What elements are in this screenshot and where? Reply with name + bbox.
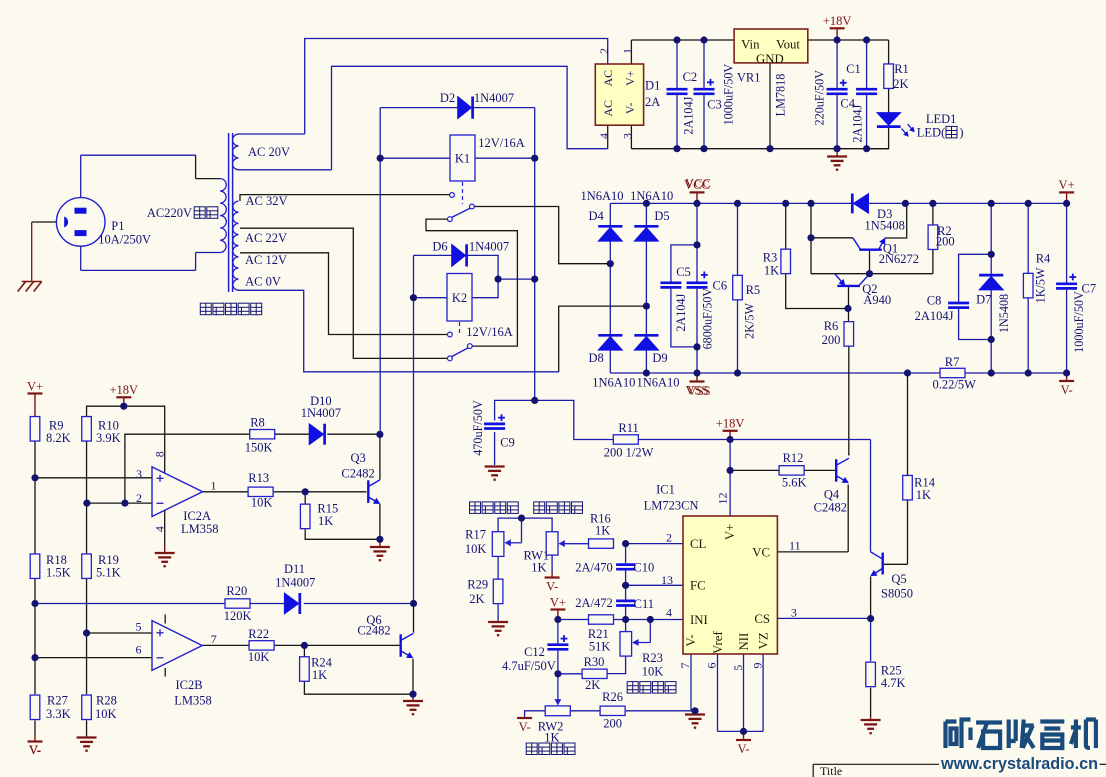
svg-text:12V/16A: 12V/16A (478, 136, 525, 150)
svg-text:LM358: LM358 (174, 694, 212, 708)
svg-text:V+: V+ (1059, 178, 1075, 192)
svg-text:200: 200 (936, 235, 955, 249)
svg-text:12: 12 (716, 493, 730, 505)
svg-text:1K: 1K (595, 523, 610, 537)
svg-text:9: 9 (751, 663, 765, 669)
svg-text:C2482: C2482 (357, 624, 390, 638)
svg-text:1000uF/50V: 1000uF/50V (1072, 291, 1086, 353)
svg-text:C10: C10 (633, 560, 654, 574)
svg-text:NII: NII (737, 633, 751, 651)
svg-text:5: 5 (731, 665, 745, 671)
svg-text:C2482: C2482 (341, 466, 374, 480)
svg-text:R13: R13 (248, 471, 269, 485)
svg-text:2N6272: 2N6272 (879, 252, 919, 266)
svg-text:2A/470: 2A/470 (575, 560, 613, 574)
svg-text:+18V: +18V (716, 417, 745, 431)
svg-text:INI: INI (690, 613, 708, 627)
svg-text:R25: R25 (881, 663, 902, 677)
svg-text:R22: R22 (248, 627, 269, 641)
svg-text:K2: K2 (452, 291, 467, 305)
svg-text:Q5: Q5 (891, 572, 906, 586)
svg-text:2K: 2K (893, 77, 908, 91)
svg-text:4.7K: 4.7K (881, 676, 906, 690)
svg-text:10K: 10K (251, 496, 273, 510)
svg-text:1N6A10: 1N6A10 (630, 189, 673, 203)
svg-text:AC: AC (601, 70, 615, 87)
svg-text:D6: D6 (432, 240, 447, 254)
svg-text:R1: R1 (894, 62, 909, 76)
svg-text:2: 2 (597, 48, 611, 54)
svg-text:): ) (959, 126, 963, 140)
svg-text:Q3: Q3 (350, 451, 365, 465)
svg-text:D5: D5 (654, 209, 669, 223)
svg-text:R23: R23 (642, 651, 663, 665)
svg-text:1K: 1K (916, 488, 931, 502)
svg-text:1K: 1K (764, 263, 779, 277)
svg-text:3.3K: 3.3K (46, 707, 71, 721)
svg-text:1.5K: 1.5K (46, 566, 71, 580)
svg-text:6: 6 (136, 642, 142, 656)
svg-text:C8: C8 (927, 294, 942, 308)
svg-text:V+: V+ (27, 379, 43, 393)
svg-text:AC 12V: AC 12V (245, 253, 287, 267)
svg-text:AC 20V: AC 20V (248, 145, 290, 159)
svg-text:1N4007: 1N4007 (469, 240, 509, 254)
svg-text:C5: C5 (676, 265, 691, 279)
svg-text:4: 4 (666, 606, 672, 620)
svg-text:S8050: S8050 (881, 587, 913, 601)
svg-text:1000uF/50V: 1000uF/50V (722, 64, 736, 126)
svg-text:C11: C11 (634, 597, 654, 611)
svg-text:IC1: IC1 (656, 482, 675, 496)
svg-text:1N4007: 1N4007 (301, 406, 341, 420)
svg-text:LM7818: LM7818 (774, 74, 788, 117)
svg-text:AC: AC (601, 100, 615, 117)
svg-text:V-: V- (546, 579, 558, 593)
svg-text:1N4007: 1N4007 (474, 91, 514, 105)
svg-text:V-: V- (684, 634, 698, 646)
svg-text:VSS: VSS (688, 384, 711, 398)
svg-text:R7: R7 (945, 355, 960, 369)
svg-text:C12: C12 (524, 645, 545, 659)
svg-text:2K/5W: 2K/5W (743, 302, 757, 338)
svg-text:C9: C9 (500, 436, 515, 450)
svg-text:8: 8 (153, 451, 167, 457)
svg-text:AC 32V: AC 32V (245, 194, 287, 208)
svg-text:V-: V- (519, 720, 531, 734)
svg-text:VCC: VCC (685, 177, 711, 191)
svg-text:200 1/2W: 200 1/2W (604, 446, 654, 460)
svg-text:R27: R27 (47, 694, 68, 708)
svg-text:LM358: LM358 (181, 522, 219, 536)
svg-text:10K: 10K (465, 542, 487, 556)
svg-text:R29: R29 (467, 577, 488, 591)
svg-text:2: 2 (136, 491, 142, 505)
svg-text:V+: V+ (723, 524, 737, 540)
svg-text:1N5408: 1N5408 (865, 218, 905, 232)
svg-text:FC: FC (690, 579, 706, 593)
svg-text:R4: R4 (1036, 252, 1051, 266)
svg-text:AC 22V: AC 22V (245, 231, 287, 245)
svg-text:VR1: VR1 (737, 70, 761, 84)
svg-text:2: 2 (666, 531, 672, 545)
svg-text:3.9K: 3.9K (96, 431, 121, 445)
svg-text:D11: D11 (284, 562, 305, 576)
svg-text:1K: 1K (318, 514, 333, 528)
svg-text:D4: D4 (588, 209, 604, 223)
svg-text:150K: 150K (245, 440, 273, 454)
svg-text:2A/472: 2A/472 (575, 596, 613, 610)
svg-text:5.6K: 5.6K (782, 476, 807, 490)
svg-text:R8: R8 (250, 416, 265, 430)
svg-text:AC 0V: AC 0V (245, 274, 281, 288)
svg-text:6800uF/50V: 6800uF/50V (701, 288, 715, 350)
svg-text:LED(: LED( (917, 126, 945, 140)
svg-text:10K: 10K (248, 650, 270, 664)
svg-text:V-: V- (737, 742, 749, 756)
svg-text:10K: 10K (95, 707, 117, 721)
svg-text:R26: R26 (602, 690, 623, 704)
svg-text:R12: R12 (783, 451, 804, 465)
svg-text:2A104J: 2A104J (851, 104, 865, 142)
svg-text:12V/16A: 12V/16A (466, 325, 513, 339)
svg-text:LM723CN: LM723CN (644, 498, 699, 512)
svg-text:3: 3 (791, 606, 797, 620)
svg-text:GND: GND (756, 52, 784, 66)
svg-text:R17: R17 (465, 527, 486, 541)
svg-text:VC: VC (752, 545, 770, 559)
svg-text:200: 200 (603, 716, 622, 730)
svg-text:IC2B: IC2B (175, 678, 202, 692)
svg-text:10A/250V: 10A/250V (98, 232, 151, 246)
svg-text:220uF/50V: 220uF/50V (812, 70, 826, 126)
svg-text:1N6A10: 1N6A10 (636, 376, 679, 390)
svg-text:C2482: C2482 (814, 500, 847, 514)
svg-text:LED1: LED1 (926, 112, 957, 126)
svg-text:D8: D8 (588, 351, 603, 365)
svg-text:4: 4 (597, 133, 611, 139)
svg-text:3: 3 (136, 467, 142, 481)
svg-text:R6: R6 (824, 319, 839, 333)
svg-text:www.crystalradio.cn: www.crystalradio.cn (940, 754, 1098, 773)
svg-text:1K/5W: 1K/5W (1034, 267, 1048, 303)
svg-text:D2: D2 (440, 91, 455, 105)
svg-text:120K: 120K (224, 609, 252, 623)
svg-text:11: 11 (789, 538, 801, 552)
svg-text:4: 4 (153, 526, 167, 532)
svg-text:1: 1 (211, 479, 217, 493)
svg-text:5: 5 (136, 620, 142, 634)
svg-text:Vout: Vout (776, 38, 800, 52)
svg-text:+18V: +18V (823, 14, 852, 28)
svg-text:13: 13 (661, 573, 673, 587)
svg-text:VZ: VZ (757, 632, 771, 649)
svg-text:Vref: Vref (711, 631, 725, 654)
svg-text:D7: D7 (976, 293, 991, 307)
svg-text:4.7uF/50V: 4.7uF/50V (502, 659, 556, 673)
svg-text:C2: C2 (683, 70, 698, 84)
svg-text:2A104J: 2A104J (915, 309, 954, 323)
svg-text:2K: 2K (469, 592, 484, 606)
svg-text:V-: V- (29, 743, 41, 757)
svg-text:2K: 2K (585, 678, 600, 692)
svg-text:R20: R20 (226, 584, 247, 598)
svg-text:10K: 10K (642, 664, 664, 678)
svg-text:1K: 1K (312, 668, 327, 682)
svg-text:1K: 1K (531, 560, 546, 574)
svg-text:CS: CS (754, 612, 770, 626)
svg-text:1N6A10: 1N6A10 (592, 376, 635, 390)
svg-text:Title: Title (820, 764, 842, 777)
svg-text:V-: V- (623, 103, 637, 115)
svg-text:3: 3 (621, 133, 635, 139)
svg-text:R5: R5 (746, 283, 761, 297)
svg-text:Vin: Vin (741, 38, 760, 52)
svg-text:C1: C1 (846, 62, 861, 76)
svg-text:1N5408: 1N5408 (997, 294, 1011, 333)
svg-text:V+: V+ (550, 595, 566, 609)
svg-text:7: 7 (678, 663, 692, 669)
svg-text:0.22/5W: 0.22/5W (932, 377, 976, 391)
svg-text:200: 200 (822, 333, 841, 347)
svg-text:V-: V- (1061, 383, 1073, 397)
svg-text:D9: D9 (652, 351, 667, 365)
svg-text:51K: 51K (589, 640, 611, 654)
svg-text:C3: C3 (707, 98, 722, 112)
svg-text:2A104J: 2A104J (682, 96, 696, 134)
svg-text:A940: A940 (863, 293, 891, 307)
svg-text:1: 1 (621, 48, 635, 54)
svg-text:R11: R11 (618, 421, 638, 435)
svg-text:2A: 2A (645, 95, 660, 109)
svg-text:+18V: +18V (110, 383, 139, 397)
svg-text:470uF/50V: 470uF/50V (471, 400, 485, 456)
svg-text:8.2K: 8.2K (46, 431, 71, 445)
svg-text:AC220V: AC220V (147, 206, 192, 220)
svg-text:2A104J: 2A104J (674, 293, 688, 331)
svg-text:P1: P1 (111, 219, 124, 233)
svg-text:CL: CL (690, 537, 707, 551)
svg-text:7: 7 (211, 632, 217, 646)
svg-text:K1: K1 (455, 152, 470, 166)
svg-text:R28: R28 (96, 694, 117, 708)
svg-text:1N4007: 1N4007 (275, 575, 315, 589)
svg-text:1N6A10: 1N6A10 (580, 189, 623, 203)
svg-text:V+: V+ (623, 70, 637, 86)
svg-text:6: 6 (705, 663, 719, 669)
svg-text:5.1K: 5.1K (96, 566, 121, 580)
svg-text:D1: D1 (645, 78, 660, 92)
svg-text:R30: R30 (584, 655, 605, 669)
